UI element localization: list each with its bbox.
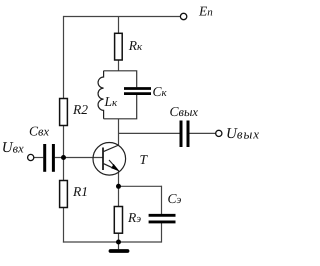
svg-text:Cк: Cк <box>153 84 168 99</box>
capacitor Ck <box>124 89 151 94</box>
wire emitter branch horizontal <box>119 185 162 187</box>
wire below Re <box>118 233 120 242</box>
wire base lead <box>55 157 103 159</box>
node emitter junction <box>116 184 121 189</box>
svg-text:Rк: Rк <box>128 38 143 53</box>
wire output branch right <box>190 132 216 134</box>
wire Ce branch upper <box>161 186 163 215</box>
wire left vertical middle <box>63 126 65 181</box>
svg-text:R2: R2 <box>72 102 88 117</box>
svg-text:Uвх: Uвх <box>2 140 24 156</box>
svg-text:Eп: Eп <box>198 4 213 19</box>
inductor Lk <box>98 71 104 119</box>
transistor T <box>93 143 126 176</box>
terminal En <box>180 13 186 19</box>
svg-text:Cвх: Cвх <box>29 123 49 138</box>
wire collector stub <box>118 119 120 146</box>
terminal Uin <box>28 154 34 160</box>
wire Rk bottom stub <box>118 60 120 71</box>
svg-text:Cэ: Cэ <box>168 191 182 206</box>
ground <box>111 249 128 253</box>
svg-text:R1: R1 <box>72 184 88 199</box>
wire emitter vertical <box>118 170 120 206</box>
wire bottom rail <box>63 241 162 243</box>
node base junction <box>61 155 66 160</box>
svg-text:Cвых: Cвых <box>170 104 199 119</box>
svg-text:Uвых: Uвых <box>226 126 260 142</box>
resistor R2 <box>60 99 68 126</box>
wire output branch left <box>119 132 180 134</box>
wire Ce branch lower <box>161 223 163 243</box>
tank circuit frame (top, right, bottom edges) <box>104 71 137 119</box>
terminal Uout <box>216 130 222 136</box>
node bottom junction <box>116 240 121 245</box>
resistor R1 <box>60 181 68 208</box>
svg-text:Lк: Lк <box>104 94 119 109</box>
resistor Re <box>114 207 122 234</box>
capacitor Ce <box>149 215 176 222</box>
wire ground stub <box>118 242 120 249</box>
wire left vertical lower <box>63 208 65 243</box>
wire Rk top stub <box>118 17 120 34</box>
capacitor Cout <box>181 121 188 148</box>
capacitor Cin <box>45 144 54 172</box>
wire input left <box>34 157 44 159</box>
resistor RK <box>115 33 123 60</box>
svg-text:Rэ: Rэ <box>127 210 141 225</box>
wire top rail <box>64 16 181 18</box>
wire left vertical upper <box>63 16 65 99</box>
